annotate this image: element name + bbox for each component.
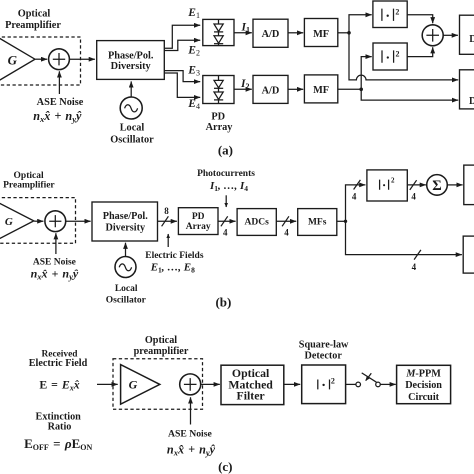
svg-text:MF: MF (313, 29, 329, 40)
svg-text:Local: Local (115, 284, 138, 294)
svg-text:Σ: Σ (432, 178, 441, 194)
svg-text:4: 4 (284, 228, 289, 238)
svg-text:ASE Noise: ASE Noise (37, 97, 84, 108)
svg-text:preamplifier: preamplifier (134, 346, 189, 357)
svg-text:Phase/Pol.: Phase/Pol. (108, 50, 154, 61)
svg-text:Oscillator: Oscillator (106, 296, 147, 306)
svg-text:Detector: Detector (305, 351, 343, 362)
svg-text:A/D: A/D (262, 29, 280, 40)
svg-text:MF: MF (313, 85, 329, 96)
svg-text:Optical: Optical (18, 9, 51, 20)
svg-text:Phase/Pol.: Phase/Pol. (103, 211, 148, 222)
svg-text:Electric Field: Electric Field (29, 358, 88, 369)
svg-text:Optical: Optical (14, 171, 44, 181)
svg-text:Local: Local (120, 123, 145, 134)
svg-text:Decision: Decision (405, 380, 442, 391)
svg-text:PD: PD (192, 212, 205, 222)
svg-text:Preamplifier: Preamplifier (3, 180, 55, 190)
svg-text:Filter: Filter (237, 389, 265, 403)
svg-text:MFs: MFs (308, 217, 327, 227)
svg-text:Oscillator: Oscillator (110, 135, 154, 146)
svg-text:2: 2 (395, 7, 399, 16)
svg-text:Photocurrents: Photocurrents (197, 169, 255, 179)
svg-text:Electric Fields: Electric Fields (145, 251, 204, 261)
svg-text:D: D (469, 96, 474, 107)
svg-text:G: G (8, 53, 18, 68)
svg-text:2: 2 (391, 176, 395, 184)
svg-text:Preamplifier: Preamplifier (5, 20, 61, 31)
svg-text:Optical: Optical (145, 335, 177, 346)
svg-text:D: D (469, 34, 474, 45)
svg-text:A/D: A/D (262, 85, 280, 96)
svg-text:4: 4 (223, 228, 228, 238)
svg-text:Circuit: Circuit (408, 392, 440, 403)
svg-text:(b): (b) (215, 295, 231, 310)
svg-text:4: 4 (352, 192, 357, 202)
svg-text:Square-law: Square-law (299, 340, 349, 351)
svg-text:(a): (a) (218, 143, 233, 158)
svg-text:ADCs: ADCs (245, 217, 270, 227)
svg-text:G: G (5, 216, 13, 228)
svg-text:Diversity: Diversity (105, 223, 145, 234)
svg-text:2: 2 (396, 49, 400, 58)
svg-text:2: 2 (331, 376, 335, 385)
svg-text:(c): (c) (218, 459, 232, 474)
svg-text:4: 4 (411, 192, 416, 202)
svg-text:PD: PD (211, 112, 225, 123)
svg-text:E = Exx̂: E = Exx̂ (39, 377, 79, 392)
svg-text:Ratio: Ratio (48, 422, 72, 433)
svg-text:8: 8 (164, 206, 169, 216)
svg-text:4: 4 (412, 262, 417, 272)
svg-text:ASE Noise: ASE Noise (168, 429, 213, 440)
svg-text:Array: Array (186, 222, 211, 232)
svg-text:E1, …, E8: E1, …, E8 (150, 261, 195, 274)
svg-text:G: G (129, 378, 138, 392)
svg-text:Diversity: Diversity (111, 61, 152, 72)
svg-text:Array: Array (206, 122, 234, 133)
svg-text:M-PPM: M-PPM (405, 368, 441, 379)
